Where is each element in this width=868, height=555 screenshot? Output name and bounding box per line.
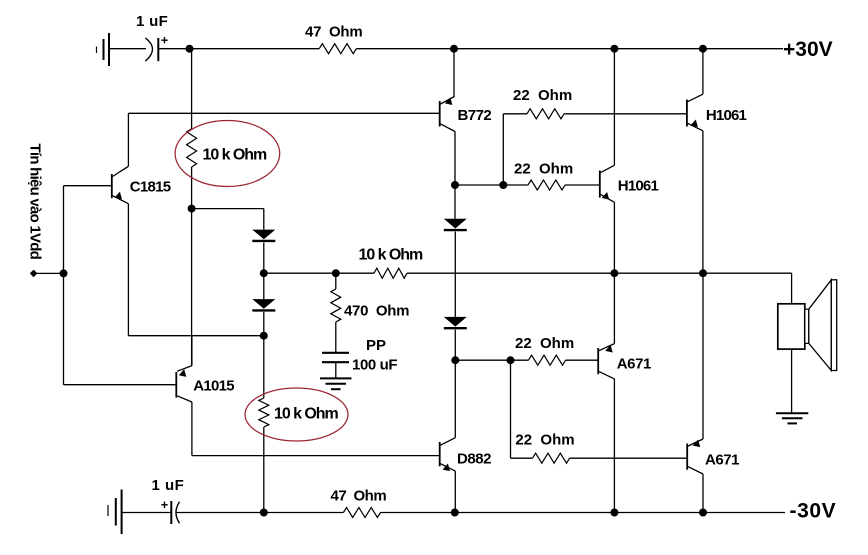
svg-text:22 Ohm: 22 Ohm	[514, 160, 573, 177]
svg-text:C1815: C1815	[130, 179, 171, 196]
svg-text:H1061: H1061	[618, 177, 659, 194]
svg-text:470 Ohm: 470 Ohm	[344, 303, 409, 320]
svg-text:PP: PP	[366, 337, 386, 354]
svg-text:47 Ohm: 47 Ohm	[305, 23, 362, 40]
svg-text:10 k Ohm: 10 k Ohm	[359, 247, 423, 264]
svg-text:B772: B772	[458, 107, 492, 124]
svg-text:Tín hiệu vào 1Vdd: Tín hiệu vào 1Vdd	[27, 144, 44, 260]
svg-text:1 uF: 1 uF	[152, 477, 185, 494]
svg-text:22 Ohm: 22 Ohm	[515, 431, 574, 448]
svg-text:100 uF: 100 uF	[352, 357, 397, 374]
svg-text:D882: D882	[457, 451, 491, 468]
svg-text:47 Ohm: 47 Ohm	[331, 488, 387, 505]
svg-text:A1015: A1015	[193, 377, 234, 394]
svg-text:-30V: -30V	[790, 499, 837, 522]
svg-text:H1061: H1061	[706, 107, 747, 124]
svg-text:A671: A671	[705, 452, 739, 469]
svg-text:10 k Ohm: 10 k Ohm	[274, 406, 338, 423]
svg-text:1 uF: 1 uF	[136, 13, 168, 30]
svg-text:A671: A671	[617, 355, 651, 372]
svg-text:22 Ohm: 22 Ohm	[515, 335, 574, 352]
svg-text:10 k Ohm: 10 k Ohm	[203, 147, 267, 164]
svg-text:22 Ohm: 22 Ohm	[513, 87, 572, 104]
svg-text:+30V: +30V	[783, 38, 833, 61]
